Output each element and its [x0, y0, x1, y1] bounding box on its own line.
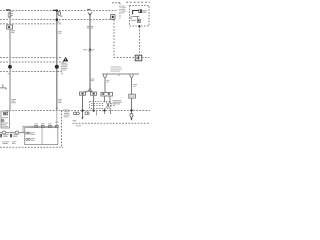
dashed module box top right	[130, 6, 150, 27]
connector line LF	[0, 146, 63, 148]
faint label top of dashed area	[75, 124, 81, 127]
bottom text rows	[2, 140, 9, 143]
ground ring symbols	[73, 112, 76, 115]
splitter diamond on W3	[89, 88, 92, 91]
terminal box C	[101, 92, 113, 96]
pin hooks below LD	[104, 109, 111, 114]
fuse block box B1	[1, 111, 10, 128]
bullet connector 2	[15, 131, 19, 134]
junction dot W2 on L2	[56, 18, 59, 21]
fuse inside B1	[3, 112, 7, 115]
label left of switch	[131, 20, 137, 21]
wire corner into B2	[23, 126, 58, 132]
dashed wire y57 right of box	[142, 56, 149, 58]
bus line LA	[0, 56, 62, 58]
terminal box A	[80, 92, 86, 95]
W2 continuation to box	[56, 111, 58, 128]
dashed box edge bottom left	[61, 111, 63, 148]
label right of coil	[143, 10, 147, 11]
label block right of dashed edge	[64, 109, 69, 112]
circuit breaker oval	[58, 11, 61, 15]
connector line LD	[6, 110, 150, 112]
label below splice	[8, 72, 11, 75]
contact arcs	[106, 102, 109, 108]
arrow end of W4	[131, 117, 133, 118]
symbols inside B2	[26, 132, 28, 134]
bus line L1 hot at all times	[0, 10, 118, 12]
bottom wire row	[0, 132, 25, 134]
wire W3	[89, 15, 91, 89]
inline component box on W4	[129, 94, 136, 98]
dashed wire top corner right	[126, 1, 150, 3]
bus line LC	[0, 70, 59, 72]
wire from box A	[82, 95, 84, 118]
small module 2	[10, 134, 12, 137]
wire W2	[56, 11, 58, 109]
dashed wire from relay box down	[139, 27, 141, 56]
fuse F1 on W1	[8, 13, 11, 17]
connector S box	[111, 15, 115, 20]
circle symbol inside B1	[1, 119, 4, 122]
splice dot on W2	[55, 65, 59, 69]
terminal labels	[34, 122, 37, 125]
switch component	[137, 19, 140, 22]
text inside B2	[31, 131, 35, 134]
wires from box C	[105, 96, 111, 102]
stub below LD	[96, 111, 98, 116]
wire corner inside module	[133, 11, 139, 15]
label block right of W2 splice	[61, 62, 67, 65]
labels both sides of W3	[87, 26, 90, 27]
module label text block	[121, 5, 125, 8]
left margin connector	[0, 84, 6, 88]
wire from box B	[93, 95, 95, 110]
bus line LB	[0, 61, 64, 63]
connector line LE	[73, 122, 151, 124]
label inside module left	[130, 16, 132, 17]
label right of W2 lower	[58, 98, 62, 101]
B2 terminals on top	[35, 125, 38, 127]
label above B2	[32, 126, 37, 127]
bus line L2	[0, 19, 115, 21]
dashed corner off LC	[58, 71, 63, 75]
bus wire mid right	[102, 73, 139, 75]
label right of W2	[58, 30, 62, 33]
bus line L3	[0, 23, 61, 25]
wire from left funnel to box C	[104, 78, 106, 93]
dashed wire from S box down	[113, 20, 115, 58]
terminal box B	[91, 92, 97, 95]
relay dashed box	[90, 102, 111, 109]
bullet connector 1	[2, 131, 6, 134]
label right of W3 lower	[91, 78, 95, 81]
stub tick	[118, 74, 120, 76]
inline connector bowtie on W3	[89, 49, 92, 51]
funnel connector right	[130, 74, 134, 78]
funnel connector left	[103, 74, 107, 78]
splice dot on W1	[8, 65, 12, 69]
label above W1	[6, 9, 11, 10]
coil component U1	[138, 9, 142, 13]
labels right of W1	[11, 30, 15, 31]
inline connector oval on W4	[130, 113, 133, 117]
B2 internal divider	[41, 128, 43, 145]
funnel connector top of W3	[88, 12, 92, 14]
wire W1	[9, 11, 11, 111]
junction on module box bottom	[138, 25, 140, 27]
split wires	[83, 91, 94, 92]
labels right of W1 lower	[11, 98, 16, 101]
dashed wire y57 left of box	[114, 56, 135, 58]
small module 1	[0, 134, 2, 137]
arrow end of W2	[56, 109, 58, 111]
text rows inside B1	[2, 116, 8, 119]
label text block mid right	[111, 66, 122, 69]
module box B2	[25, 128, 58, 145]
wire W4	[131, 78, 133, 94]
label text block left	[112, 99, 121, 102]
junction dot W2 on L1	[56, 9, 58, 11]
warning triangle	[63, 57, 69, 62]
wire below	[131, 98, 133, 113]
internal wire	[133, 17, 140, 19]
relay box on y57	[135, 55, 142, 61]
dashed wire top corner left	[112, 3, 120, 19]
connector box on W1	[7, 25, 13, 29]
